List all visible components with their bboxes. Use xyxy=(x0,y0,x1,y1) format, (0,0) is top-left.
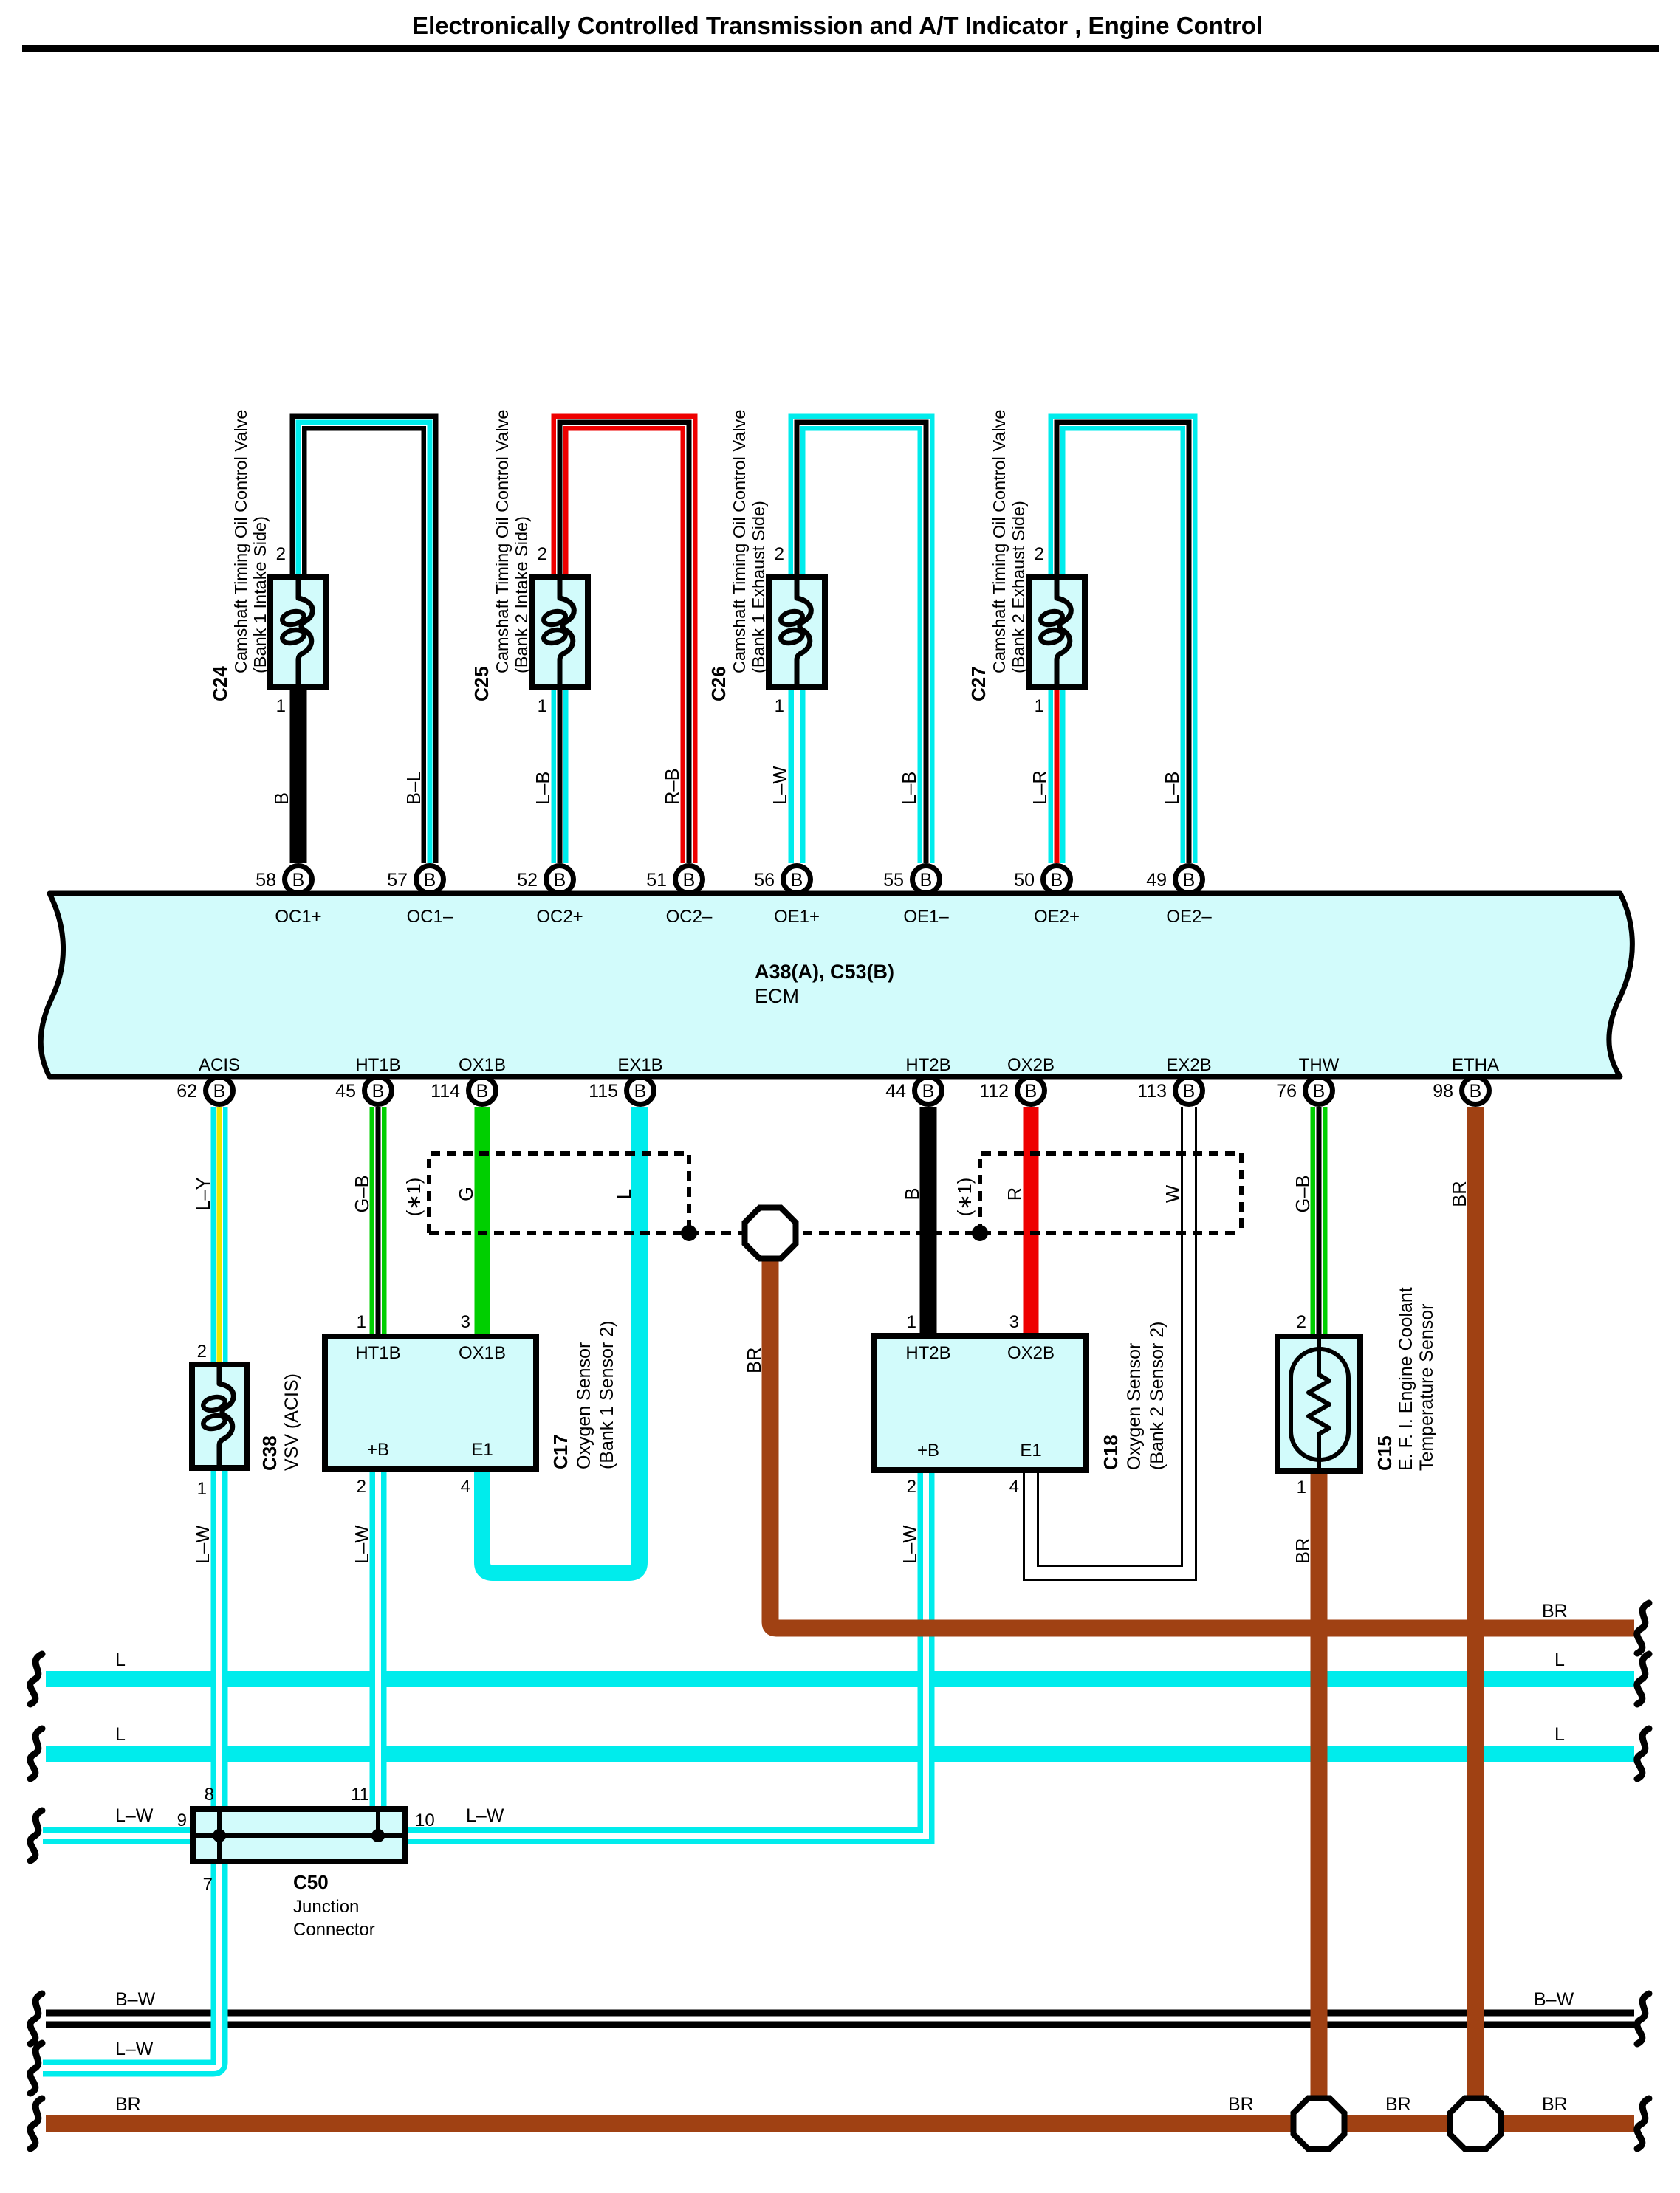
svg-text:(∗1): (∗1) xyxy=(404,1178,425,1217)
camshaft timing oil control valve C26 box xyxy=(769,577,825,687)
C25 coil xyxy=(560,580,574,684)
wire L : ECM 115 EX1B loop to C17 pin4 xyxy=(482,1107,640,1573)
ECM terminal 115 EX1B xyxy=(589,1055,663,1105)
joint octagon (C15 BR to BR bus) xyxy=(1294,2098,1345,2149)
svg-text:76: 76 xyxy=(1276,1081,1297,1102)
svg-text:L–W: L–W xyxy=(900,1526,921,1564)
svg-text:1: 1 xyxy=(1297,1478,1306,1497)
svg-text:VSV (ACIS): VSV (ACIS) xyxy=(281,1373,302,1471)
svg-text:L–W: L–W xyxy=(466,1805,504,1826)
camshaft timing oil control valve C24 box xyxy=(270,577,326,687)
shield ground octagon symbol xyxy=(745,1208,796,1259)
svg-text:2: 2 xyxy=(1035,544,1044,564)
svg-text:EX1B: EX1B xyxy=(617,1055,662,1075)
break symbol L upper left xyxy=(30,1654,42,1704)
svg-text:W: W xyxy=(1163,1185,1184,1203)
svg-text:2: 2 xyxy=(538,544,547,564)
svg-text:(Bank 1 Sensor 2): (Bank 1 Sensor 2) xyxy=(597,1321,617,1470)
camshaft timing oil control valve C27 box xyxy=(1029,577,1085,687)
ECM terminal 44 HT2B xyxy=(885,1055,950,1105)
wire BR : C15 pin1 down to octagon joint xyxy=(1311,1471,1328,2096)
svg-text:OX2B: OX2B xyxy=(1007,1055,1055,1075)
svg-text:E1: E1 xyxy=(1020,1441,1041,1461)
svg-text:2: 2 xyxy=(775,544,784,564)
C26 coil xyxy=(797,580,811,684)
svg-text:B: B xyxy=(213,1081,226,1102)
ECM terminal 52 OC2+ xyxy=(517,866,583,927)
svg-text:OX1B: OX1B xyxy=(459,1055,506,1075)
C18 pin numbers xyxy=(907,1312,1019,1497)
C17 label xyxy=(549,1321,617,1470)
svg-text:+B: +B xyxy=(367,1440,389,1460)
svg-text:Junction: Junction xyxy=(293,1897,359,1917)
ECM terminal 55 OE1- xyxy=(883,866,949,927)
svg-text:44: 44 xyxy=(885,1081,906,1102)
C50 internal bus xyxy=(193,1809,405,1861)
svg-text:4: 4 xyxy=(1009,1477,1019,1497)
ECM terminal 112 OX2B xyxy=(979,1055,1055,1105)
break symbol BR top right xyxy=(1637,1603,1649,1653)
break symbol B-W right xyxy=(1637,1994,1649,2044)
wire B : C24 pin1 to ECM 58 xyxy=(290,687,307,863)
svg-text:BR: BR xyxy=(1542,2094,1568,2115)
svg-text:10: 10 xyxy=(415,1811,435,1830)
svg-text:OE1–: OE1– xyxy=(903,907,949,927)
ECM name label xyxy=(755,961,894,1007)
svg-text:(Bank 1 Intake Side): (Bank 1 Intake Side) xyxy=(250,516,270,673)
ECM terminal 58 OC1+ xyxy=(256,866,322,927)
svg-text:(Bank 1 Exhaust Side): (Bank 1 Exhaust Side) xyxy=(749,501,768,673)
joint octagon (ETHA BR to BR bus) xyxy=(1450,2098,1501,2149)
bus L (upper) xyxy=(46,1671,1634,1687)
svg-text:11: 11 xyxy=(351,1785,369,1805)
svg-text:B–L: B–L xyxy=(404,772,425,805)
svg-text:2: 2 xyxy=(276,544,286,564)
svg-text:OX2B: OX2B xyxy=(1007,1343,1055,1363)
ECM terminal 114 OX1B xyxy=(431,1055,506,1105)
C24 label xyxy=(209,410,270,701)
svg-text:L–B: L–B xyxy=(1162,772,1183,805)
svg-text:58: 58 xyxy=(256,870,276,890)
svg-text:B: B xyxy=(791,870,803,890)
svg-text:B: B xyxy=(922,1081,935,1102)
oxygen sensor C18 box xyxy=(874,1336,1086,1470)
svg-text:4: 4 xyxy=(461,1477,470,1497)
wire B : ECM 44 HT2B to C18 pin1 xyxy=(920,1107,937,1336)
svg-text:114: 114 xyxy=(431,1081,460,1102)
wire BR : shield octagon down and right to edge xyxy=(770,1261,1634,1628)
svg-text:G: G xyxy=(456,1187,477,1201)
shield junction node left xyxy=(681,1225,697,1241)
C50 label xyxy=(293,1871,375,1940)
svg-text:112: 112 xyxy=(979,1081,1009,1102)
junction connector C50 box xyxy=(193,1809,405,1861)
svg-text:L–W: L–W xyxy=(352,1526,373,1564)
ECM terminal 113 EX2B xyxy=(1137,1055,1212,1105)
svg-text:Oxygen Sensor: Oxygen Sensor xyxy=(1124,1343,1145,1470)
svg-text:(Bank 2 Intake Side): (Bank 2 Intake Side) xyxy=(512,516,531,673)
svg-text:L–Y: L–Y xyxy=(193,1177,214,1210)
svg-text:G–B: G–B xyxy=(1293,1175,1314,1212)
ECM terminal 98 ETHA xyxy=(1433,1055,1499,1105)
svg-text:1: 1 xyxy=(276,696,286,716)
ECM terminal 45 HT1B xyxy=(335,1055,400,1105)
svg-text:1: 1 xyxy=(357,1312,366,1332)
svg-text:1: 1 xyxy=(538,696,547,716)
svg-text:B: B xyxy=(1183,870,1196,890)
svg-text:B: B xyxy=(1470,1081,1482,1102)
wire R-B loop: C25 pin2 to ECM 51 xyxy=(560,422,689,863)
svg-text:(∗1): (∗1) xyxy=(955,1178,976,1217)
C38 coil xyxy=(219,1367,233,1465)
ECM terminal 76 THW xyxy=(1276,1055,1339,1105)
ECM terminal 56 OE1+ xyxy=(754,866,820,927)
svg-text:BR: BR xyxy=(1385,2094,1411,2115)
svg-text:BR: BR xyxy=(115,2094,141,2115)
svg-text:Electronically Controlled Tran: Electronically Controlled Transmission a… xyxy=(412,12,1263,39)
break symbol L upper right xyxy=(1637,1654,1649,1704)
ECM terminal 51 OC2- xyxy=(646,866,713,927)
svg-text:C24: C24 xyxy=(209,666,231,701)
ECM terminal 62 ACIS xyxy=(176,1055,240,1105)
break symbol L lower right xyxy=(1637,1729,1649,1779)
svg-text:1: 1 xyxy=(197,1479,207,1499)
svg-text:2: 2 xyxy=(357,1477,366,1497)
svg-text:L: L xyxy=(614,1189,635,1199)
svg-text:55: 55 xyxy=(883,870,904,890)
svg-text:B: B xyxy=(554,870,566,890)
svg-text:OE1+: OE1+ xyxy=(774,907,820,927)
svg-text:C27: C27 xyxy=(967,666,990,701)
svg-text:OC1+: OC1+ xyxy=(275,907,321,927)
svg-text:45: 45 xyxy=(335,1081,356,1102)
C24 coil xyxy=(298,580,312,684)
dashed shield line xyxy=(429,1231,1241,1235)
svg-text:ECM: ECM xyxy=(755,985,799,1007)
break symbol BR left xyxy=(30,2098,42,2149)
svg-text:C50: C50 xyxy=(293,1871,329,1893)
svg-text:G–B: G–B xyxy=(352,1175,373,1212)
svg-text:50: 50 xyxy=(1014,870,1035,890)
svg-text:3: 3 xyxy=(1009,1312,1019,1332)
svg-text:L–W: L–W xyxy=(115,2039,154,2059)
svg-text:2: 2 xyxy=(1297,1312,1306,1332)
C27 coil xyxy=(1057,580,1071,684)
break symbol L lower left xyxy=(30,1729,42,1779)
svg-text:B–W: B–W xyxy=(1534,1989,1574,2010)
wire L-Y : ECM 62 ACIS to C38 pin2 xyxy=(211,1107,228,1365)
bus L (lower) xyxy=(46,1746,1634,1762)
svg-text:B: B xyxy=(1183,1081,1196,1102)
svg-text:L–B: L–B xyxy=(899,772,920,805)
wire L-W : C38 pin1 to C50 pin8 xyxy=(211,1468,228,1809)
bus BR (bottom) xyxy=(46,2115,1634,2132)
svg-text:98: 98 xyxy=(1433,1081,1453,1102)
C38 label xyxy=(258,1373,302,1471)
svg-text:A38(A), C53(B): A38(A), C53(B) xyxy=(755,961,894,983)
wire G-B : ECM 76 THW to C15 pin2 xyxy=(1311,1107,1328,1336)
svg-text:51: 51 xyxy=(646,870,667,890)
svg-text:L: L xyxy=(115,1650,126,1670)
break symbol L-W elbow left xyxy=(30,2043,42,2093)
svg-text:B: B xyxy=(272,792,292,805)
svg-text:C18: C18 xyxy=(1100,1435,1122,1470)
svg-text:C25: C25 xyxy=(470,666,493,701)
svg-text:3: 3 xyxy=(461,1312,470,1332)
wire G : ECM 114 OX1B to C17 pin3 xyxy=(475,1107,490,1336)
title rule xyxy=(22,45,1659,52)
bus B-W xyxy=(46,2010,1634,2028)
svg-text:THW: THW xyxy=(1299,1055,1340,1075)
svg-text:BR: BR xyxy=(1293,1538,1314,1564)
svg-text:62: 62 xyxy=(176,1081,197,1102)
svg-text:Camshaft Timing Oil Control Va: Camshaft Timing Oil Control Valve xyxy=(493,410,512,673)
svg-text:HT1B: HT1B xyxy=(355,1055,400,1075)
svg-text:BR: BR xyxy=(1450,1181,1470,1207)
svg-text:B: B xyxy=(424,870,436,890)
svg-text:56: 56 xyxy=(754,870,775,890)
coolant temperature sensor C15 box xyxy=(1278,1336,1360,1471)
shield dashed box (*1) for C17 xyxy=(429,1153,689,1233)
svg-text:115: 115 xyxy=(589,1081,618,1102)
ECM block A38(A), C53(B) xyxy=(41,893,1632,1077)
C50 pin numbers xyxy=(177,1785,435,1895)
wire BR : ECM 98 ETHA down to octagon joint xyxy=(1467,1107,1484,2096)
svg-text:OC2+: OC2+ xyxy=(536,907,583,927)
C26 label xyxy=(707,410,768,701)
C27 label xyxy=(967,410,1028,701)
svg-text:B: B xyxy=(902,1187,923,1200)
svg-text:9: 9 xyxy=(177,1811,187,1830)
svg-text:HT2B: HT2B xyxy=(905,1055,950,1075)
wire L-W : C26 pin1 to ECM 56 xyxy=(789,687,806,863)
svg-text:OC1–: OC1– xyxy=(407,907,453,927)
svg-text:2: 2 xyxy=(907,1477,916,1497)
ECM terminal 49 OE2- xyxy=(1146,866,1212,927)
svg-text:L–W: L–W xyxy=(193,1526,213,1564)
svg-text:ETHA: ETHA xyxy=(1452,1055,1499,1075)
svg-text:OC2–: OC2– xyxy=(666,907,713,927)
svg-text:B: B xyxy=(683,870,696,890)
svg-text:B: B xyxy=(1313,1081,1326,1102)
svg-text:113: 113 xyxy=(1137,1081,1167,1102)
svg-text:EX2B: EX2B xyxy=(1166,1055,1211,1075)
C17 terminal names xyxy=(355,1343,506,1460)
svg-text:2: 2 xyxy=(197,1342,207,1362)
svg-text:52: 52 xyxy=(517,870,538,890)
svg-text:BR: BR xyxy=(744,1348,765,1373)
svg-text:L–B: L–B xyxy=(533,772,554,805)
svg-text:OX1B: OX1B xyxy=(459,1343,506,1363)
wire L-R : C27 pin1 to ECM 50 xyxy=(1049,687,1066,863)
svg-text:L–W: L–W xyxy=(115,1805,154,1826)
svg-text:Camshaft Timing Oil Control Va: Camshaft Timing Oil Control Valve xyxy=(990,410,1009,673)
svg-text:8: 8 xyxy=(205,1785,214,1805)
svg-text:L–W: L–W xyxy=(770,766,791,805)
svg-text:OE2+: OE2+ xyxy=(1034,907,1080,927)
svg-text:1: 1 xyxy=(1035,696,1044,716)
ECM terminal 50 OE2+ xyxy=(1014,866,1080,927)
C15 label xyxy=(1374,1287,1437,1471)
oxygen sensor C17 box xyxy=(325,1336,536,1469)
svg-text:1: 1 xyxy=(775,696,784,716)
break symbol L-W left xyxy=(30,1811,42,1861)
wire L-W : C18 pin2 down and left along bus to C50 pin10 xyxy=(43,1470,926,1836)
break symbol BR right xyxy=(1637,2098,1649,2149)
svg-text:B: B xyxy=(292,870,305,890)
C25 label xyxy=(470,410,531,701)
svg-text:49: 49 xyxy=(1146,870,1167,890)
wire L-B loop: C27 pin2 to ECM 49 xyxy=(1057,422,1189,863)
svg-text:(Bank 2 Exhaust Side): (Bank 2 Exhaust Side) xyxy=(1009,501,1028,673)
shield dashed box (*1) for C18 xyxy=(980,1153,1241,1233)
svg-text:C17: C17 xyxy=(549,1434,572,1469)
svg-text:HT1B: HT1B xyxy=(355,1343,400,1363)
svg-text:HT2B: HT2B xyxy=(905,1343,950,1363)
svg-text:B–W: B–W xyxy=(115,1989,156,2010)
svg-text:B: B xyxy=(634,1081,647,1102)
svg-text:Camshaft Timing Oil Control Va: Camshaft Timing Oil Control Valve xyxy=(231,410,250,673)
wire B-L loop: C24 pin2 to ECM 57 xyxy=(298,422,430,863)
svg-text:B: B xyxy=(372,1081,385,1102)
svg-text:BR: BR xyxy=(1542,1601,1568,1621)
wire L-W : C17 pin2 to C50 pin11 xyxy=(370,1469,387,1809)
wire L-W : C50 pin7 down, left to edge xyxy=(43,1861,219,2068)
ECM terminal 57 OC1- xyxy=(387,866,453,927)
svg-text:ACIS: ACIS xyxy=(199,1055,240,1075)
svg-text:(Bank 2 Sensor 2): (Bank 2 Sensor 2) xyxy=(1147,1322,1168,1471)
break symbol B-W left xyxy=(30,1994,42,2044)
wire L-B : C25 pin1 to ECM 52 xyxy=(552,687,569,863)
svg-text:OE2–: OE2– xyxy=(1166,907,1212,927)
wire W : ECM 113 EX2B loop to C18 pin4 xyxy=(1031,1107,1189,1573)
shield junction node right xyxy=(972,1225,988,1241)
svg-text:Camshaft Timing Oil Control Va: Camshaft Timing Oil Control Valve xyxy=(730,410,749,673)
svg-text:E. F. I. Engine Coolant: E. F. I. Engine Coolant xyxy=(1396,1287,1416,1471)
C50 junction dot pin 9-7 xyxy=(213,1829,226,1842)
svg-text:L: L xyxy=(1554,1650,1565,1670)
svg-text:L: L xyxy=(1554,1724,1565,1745)
svg-text:BR: BR xyxy=(1228,2094,1254,2115)
svg-text:B: B xyxy=(1051,870,1063,890)
C50 junction dot pin 11-10 xyxy=(371,1829,385,1842)
svg-text:L–R: L–R xyxy=(1030,770,1051,805)
C18 label xyxy=(1100,1322,1168,1471)
C17 pin numbers xyxy=(357,1312,470,1497)
svg-text:R: R xyxy=(1005,1187,1026,1201)
C18 terminal names xyxy=(905,1343,1055,1461)
svg-text:Temperature Sensor: Temperature Sensor xyxy=(1416,1303,1437,1471)
svg-text:R–B: R–B xyxy=(662,768,683,805)
svg-text:B: B xyxy=(1025,1081,1038,1102)
svg-text:Connector: Connector xyxy=(293,1920,375,1940)
VSV C38 box xyxy=(192,1365,247,1468)
C15 thermistor symbol xyxy=(1291,1349,1348,1460)
svg-text:B: B xyxy=(476,1081,489,1102)
camshaft timing oil control valve C25 box xyxy=(532,577,588,687)
svg-text:57: 57 xyxy=(387,870,408,890)
svg-text:B: B xyxy=(920,870,933,890)
svg-text:E1: E1 xyxy=(471,1440,493,1460)
svg-text:C15: C15 xyxy=(1374,1435,1396,1471)
svg-text:C26: C26 xyxy=(707,666,730,701)
wire R : ECM 112 OX2B to C18 pin3 xyxy=(1024,1107,1039,1336)
svg-text:1: 1 xyxy=(907,1312,916,1332)
wire G-B : ECM 45 HT1B to C17 pin1 xyxy=(370,1107,387,1336)
svg-text:L: L xyxy=(115,1724,126,1745)
svg-text:7: 7 xyxy=(203,1875,213,1895)
svg-text:Oxygen Sensor: Oxygen Sensor xyxy=(574,1342,594,1469)
wire L-B loop: C26 pin2 to ECM 55 xyxy=(797,422,926,863)
svg-text:+B: +B xyxy=(917,1441,939,1461)
svg-text:C38: C38 xyxy=(258,1435,281,1471)
